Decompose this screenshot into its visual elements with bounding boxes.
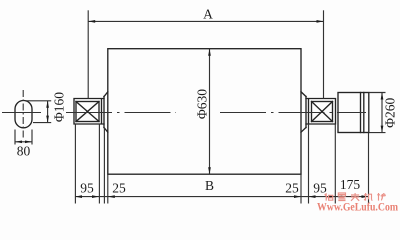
svg-text:Φ260: Φ260 bbox=[382, 97, 397, 127]
main centerline bbox=[66, 112, 366, 114]
left hub chamfer top bbox=[104, 92, 108, 97]
bottom ext line x368.5 bbox=[368, 133, 370, 204]
watermark chinese characters bbox=[325, 193, 386, 201]
arrow 80 left bbox=[15, 140, 22, 143]
coupling groove line 2 bbox=[363, 93, 365, 133]
arrow phi260 bottom bbox=[381, 126, 384, 133]
svg-text:A: A bbox=[203, 7, 213, 22]
shaft end view stadium bbox=[15, 101, 32, 128]
dim phi160 ext bottom bbox=[33, 122, 51, 124]
right hub chamfer top bbox=[301, 92, 306, 97]
right hub chamfer bottom bbox=[301, 128, 306, 133]
dim A extension right bbox=[323, 10, 325, 98]
dim phi260 ext bottom bbox=[369, 132, 386, 134]
arrow phi260 top bbox=[381, 93, 384, 100]
svg-text:95: 95 bbox=[313, 180, 327, 195]
dim phi260 ext top bbox=[369, 92, 386, 94]
coupling cylinder bbox=[338, 93, 369, 133]
arrow 95R right bbox=[328, 195, 335, 198]
arrow 95L right bbox=[92, 195, 99, 198]
dim 80 ext left bbox=[14, 130, 16, 145]
dim phi160 line bbox=[47, 101, 49, 123]
arrow phi630 bottom bbox=[208, 167, 211, 174]
dim phi630 line bbox=[209, 49, 211, 175]
arrow 175 right bbox=[362, 195, 369, 198]
left bearing housing bbox=[74, 99, 104, 125]
bottom ext line x308.5 bbox=[308, 124, 310, 204]
arrow 80 right bbox=[25, 140, 32, 143]
drum body bbox=[108, 49, 301, 175]
arrow 25L bbox=[108, 195, 115, 198]
left hub collar bbox=[103, 97, 105, 128]
svg-text:Www.GeLufu.Com: Www.GeLufu.Com bbox=[317, 202, 399, 213]
svg-text:175: 175 bbox=[340, 177, 361, 192]
left hub chamfer bottom bbox=[104, 128, 108, 133]
svg-text:Φ630: Φ630 bbox=[195, 89, 210, 119]
dim 80 line bbox=[15, 141, 32, 143]
arrow 95L left bbox=[75, 195, 82, 198]
left bearing cross bbox=[76, 102, 99, 122]
bottom ext line drum right bbox=[300, 174, 302, 203]
bottom ext line drum left bbox=[107, 174, 109, 203]
stadium horizontal centerline bbox=[2, 112, 41, 114]
arrow A right bbox=[317, 20, 324, 23]
stadium vertical centerline bbox=[22, 90, 24, 139]
svg-text:95: 95 bbox=[80, 180, 94, 195]
bottom ext line x104 bbox=[103, 128, 105, 204]
dim 80 ext right bbox=[31, 130, 33, 145]
bottom ext line x335 bbox=[334, 124, 336, 204]
svg-text:25: 25 bbox=[285, 180, 299, 195]
svg-text:B: B bbox=[205, 178, 214, 193]
right hub collar bbox=[305, 97, 307, 128]
bottom ext line x75 bbox=[74, 124, 76, 204]
bottom ext line x99 bbox=[98, 124, 100, 204]
arrow A left bbox=[88, 20, 95, 23]
right bearing cross bbox=[312, 102, 333, 122]
right bearing housing bbox=[306, 99, 336, 125]
svg-text:80: 80 bbox=[17, 144, 31, 159]
svg-text:Φ160: Φ160 bbox=[51, 92, 66, 122]
coupling groove line 1 bbox=[360, 93, 362, 133]
dim A line bbox=[88, 20, 323, 22]
arrow phi160 bottom bbox=[46, 116, 49, 123]
arrow 95R left bbox=[309, 195, 316, 198]
arrow phi630 top bbox=[208, 49, 211, 56]
right bearing square bbox=[312, 102, 333, 122]
bottom dim line bbox=[75, 196, 369, 198]
arrow phi160 top bbox=[46, 101, 49, 108]
arrow 175 left bbox=[335, 195, 342, 198]
left bearing square bbox=[76, 102, 99, 122]
svg-text:25: 25 bbox=[112, 180, 126, 195]
arrow 25R bbox=[294, 195, 301, 198]
dim A extension left bbox=[87, 10, 89, 98]
dim phi160 ext top bbox=[25, 100, 51, 102]
dim phi260 line bbox=[381, 93, 383, 133]
